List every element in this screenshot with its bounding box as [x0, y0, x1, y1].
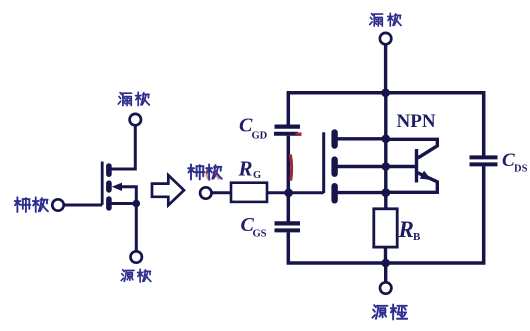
- red mark vertical: [290, 155, 291, 181]
- channel segment source (left MOSFET): [106, 199, 112, 208]
- capacitor CDS top plate: [470, 155, 498, 159]
- terminal source (right): [380, 282, 391, 293]
- wire drain to channel (left): [110, 126, 135, 170]
- resistor RB: [374, 209, 397, 247]
- svg-text:DS: DS: [514, 164, 528, 175]
- svg-text:R: R: [238, 157, 253, 181]
- label 栅极 (right gate): [188, 164, 222, 179]
- junction gate node: [284, 189, 293, 198]
- channel segment drain (left MOSFET): [106, 166, 112, 174]
- wire RB to rail: [384, 247, 387, 263]
- capacitor CGD top plate: [275, 124, 301, 128]
- svg-text:R: R: [398, 217, 414, 242]
- emitter arrow NPN: [420, 171, 432, 180]
- svg-text:GS: GS: [253, 229, 267, 240]
- label 源極 (right source): [372, 304, 407, 319]
- terminal source (left): [131, 251, 142, 262]
- capacitor CGS bottom plate: [275, 228, 301, 232]
- wire source down (left): [135, 204, 138, 251]
- junction body-source (left): [133, 200, 141, 208]
- base bar NPN Q1: [415, 149, 418, 183]
- body arrow (left MOSFET): [112, 183, 122, 191]
- svg-text:GD: GD: [252, 131, 268, 142]
- wire emitter of NPN: [386, 173, 438, 193]
- wire gate to RG: [212, 191, 231, 194]
- junction base node: [382, 162, 391, 171]
- channel segment body (right MOSFET): [331, 160, 337, 174]
- capacitor CGD bottom plate: [274, 132, 298, 136]
- wire drain stub (right MOSFET): [335, 137, 386, 140]
- channel segment body (left MOSFET): [106, 183, 112, 190]
- wire top rail with upper branches: [288, 93, 483, 156]
- label 源极 (left source): [121, 269, 151, 282]
- channel segment source (right MOSFET): [331, 186, 337, 200]
- wire body stub to source (left): [120, 187, 137, 204]
- wire gate (left): [64, 204, 102, 207]
- resistor RG: [231, 183, 267, 202]
- capacitor CDS bottom plate: [470, 162, 498, 166]
- wire collector of NPN: [386, 139, 438, 158]
- wire RG to gate bar: [267, 191, 324, 194]
- wire drain lead: [384, 45, 387, 93]
- gate bar (left MOSFET): [101, 162, 104, 205]
- svg-text:NPN: NPN: [397, 111, 436, 132]
- wire left branch middle: [287, 136, 291, 222]
- wire source lead (right): [384, 263, 387, 282]
- label 漏极 (right drain): [370, 13, 401, 26]
- red mark on CGD plate: [296, 132, 302, 135]
- gate bar (right MOSFET): [322, 132, 325, 193]
- svg-text:G: G: [253, 170, 261, 181]
- block arrow: [152, 175, 184, 205]
- junction drain rail: [381, 89, 390, 98]
- capacitor CGS top plate: [275, 221, 301, 225]
- wire body stub (right MOSFET): [335, 165, 386, 168]
- label 栅极 (left gate): [15, 197, 48, 212]
- wire main vertical: [384, 93, 387, 209]
- junction emitter node: [381, 188, 390, 197]
- wire source stub (right MOSFET): [335, 191, 386, 194]
- wire bottom rail with lower branches: [288, 166, 483, 263]
- channel segment drain (right MOSFET): [331, 133, 337, 146]
- wire source stub (left): [111, 202, 136, 205]
- red mark on gate label: [207, 169, 220, 181]
- terminal drain (left): [130, 114, 141, 125]
- junction collector node: [382, 135, 391, 144]
- wire base of NPN: [386, 165, 415, 168]
- terminal gate (right): [200, 187, 211, 198]
- label 漏极 (left drain): [118, 92, 149, 105]
- terminal drain (right): [380, 33, 391, 44]
- terminal gate (left): [52, 199, 63, 210]
- svg-text:B: B: [413, 231, 421, 243]
- junction source rail: [381, 259, 390, 268]
